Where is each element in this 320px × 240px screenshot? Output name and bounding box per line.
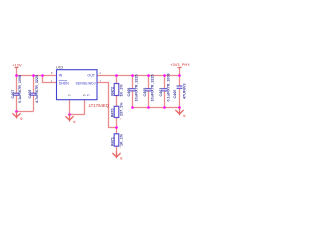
- svg-text:R471: R471: [110, 137, 114, 146]
- svg-text:237_1%: 237_1%: [120, 102, 124, 116]
- svg-text:C469: C469: [28, 90, 32, 99]
- svg-text:LT1764EQ: LT1764EQ: [89, 103, 110, 108]
- svg-text:C463: C463: [159, 88, 163, 97]
- svg-text:47UF6V3: 47UF6V3: [183, 83, 187, 99]
- svg-text:10uF/X7R_3225: 10uF/X7R_3225: [151, 74, 155, 101]
- svg-text:C467: C467: [11, 90, 15, 99]
- svg-text:1K_1%: 1K_1%: [120, 133, 124, 146]
- svg-text:8: 8: [51, 71, 53, 75]
- svg-text:+3V3_PHY: +3V3_PHY: [170, 62, 190, 67]
- svg-text:2: 2: [100, 71, 102, 75]
- svg-text:0.1uF/X7R_1008: 0.1uF/X7R_1008: [167, 73, 171, 101]
- svg-text:10uF/X7R_3225: 10uF/X7R_3225: [135, 74, 139, 101]
- svg-text:2: 2: [120, 147, 122, 149]
- svg-text:SENSE/ADJ: SENSE/ADJ: [76, 81, 96, 85]
- svg-text:R470: R470: [110, 108, 114, 117]
- svg-text:R472: R472: [110, 87, 114, 96]
- svg-text:C468: C468: [127, 88, 131, 97]
- svg-text:5: 5: [87, 94, 91, 96]
- svg-text:U63: U63: [56, 65, 64, 70]
- svg-text:SHDN: SHDN: [59, 81, 70, 85]
- svg-text:+12V: +12V: [12, 63, 22, 68]
- svg-text:OUT: OUT: [87, 73, 95, 77]
- svg-text:IN: IN: [59, 73, 63, 77]
- svg-text:C465: C465: [143, 88, 147, 97]
- svg-text:3: 3: [67, 94, 71, 96]
- svg-text:C460: C460: [173, 90, 177, 99]
- svg-text:2: 2: [120, 118, 122, 120]
- svg-text:4.7uF/X7R_3225: 4.7uF/X7R_3225: [35, 75, 39, 103]
- svg-text:0.1uF/X7R_1008: 0.1uF/X7R_1008: [18, 75, 22, 103]
- svg-text:1K_1%: 1K_1%: [120, 84, 124, 97]
